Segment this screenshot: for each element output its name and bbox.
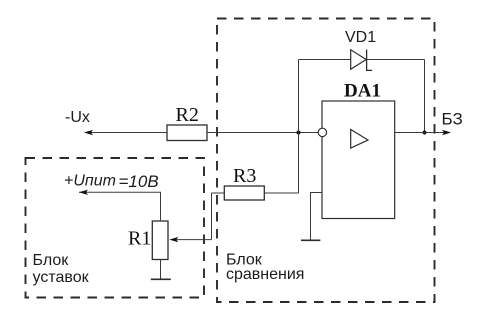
svg-text:DA1: DA1	[344, 81, 381, 102]
output arrow БЗ (points right)	[442, 130, 451, 135]
op-amp DA1 body	[322, 101, 395, 219]
svg-text:R2: R2	[176, 104, 199, 126]
resistor R3	[224, 186, 264, 200]
wire: non-inverting input stub to ground	[311, 193, 323, 241]
label Блок сравнения	[226, 252, 304, 284]
op-amp amplifier triangle	[351, 130, 368, 149]
label Блок уставок	[33, 252, 90, 286]
node A junction dot	[297, 131, 301, 135]
svg-text:-Ux: -Ux	[65, 109, 90, 126]
wire: op-amp output	[395, 132, 449, 134]
svg-text:VD1: VD1	[345, 29, 376, 46]
wire: feedback right branch down to output	[424, 60, 426, 133]
svg-text:сравнения: сравнения	[226, 266, 304, 283]
diode VD1 (zener)	[351, 50, 373, 71]
svg-text:R1: R1	[128, 228, 151, 250]
R1 wiper arrow (points left into R1)	[169, 237, 178, 242]
svg-text:=10В: =10В	[119, 172, 159, 191]
block boundary: Блок сравнения dashed box	[217, 19, 435, 303]
wire: R1 wiper horizontal lead	[171, 239, 212, 241]
resistor R2	[167, 125, 207, 141]
op-amp inverting input circle	[318, 128, 326, 136]
wire: -Ux input to R2	[85, 132, 167, 134]
wire: vertical from R3 down to R1 wiper line	[211, 193, 213, 240]
wire: diode cathode lead	[367, 59, 425, 61]
svg-text:БЗ: БЗ	[442, 110, 463, 129]
block boundary: Блок уставок dashed box	[26, 158, 205, 298]
svg-text:Блок: Блок	[33, 252, 70, 269]
ground (op-amp input)	[301, 239, 320, 241]
+Uпит arrow (points left)	[79, 190, 88, 195]
potentiometer R1 body	[152, 221, 168, 260]
node B junction dot	[423, 131, 427, 135]
input arrow -Ux (points left)	[84, 130, 93, 135]
svg-text:R3: R3	[233, 165, 256, 187]
svg-text:+Uпит: +Uпит	[64, 173, 116, 190]
wire: R1 bottom to ground	[160, 260, 162, 280]
ground (R1)	[151, 278, 171, 280]
wire: diode anode lead	[299, 59, 351, 61]
wire: +Uпит feed to R1 top	[79, 192, 161, 221]
wire: R3 left lead	[212, 192, 225, 194]
wire: R3 right lead to node A branch	[264, 192, 298, 194]
svg-text:уставок: уставок	[33, 269, 90, 286]
wire: vertical feedback left branch (node A up to diode, down to R3)	[298, 60, 300, 194]
wire: R2 to inverting input	[207, 132, 318, 134]
